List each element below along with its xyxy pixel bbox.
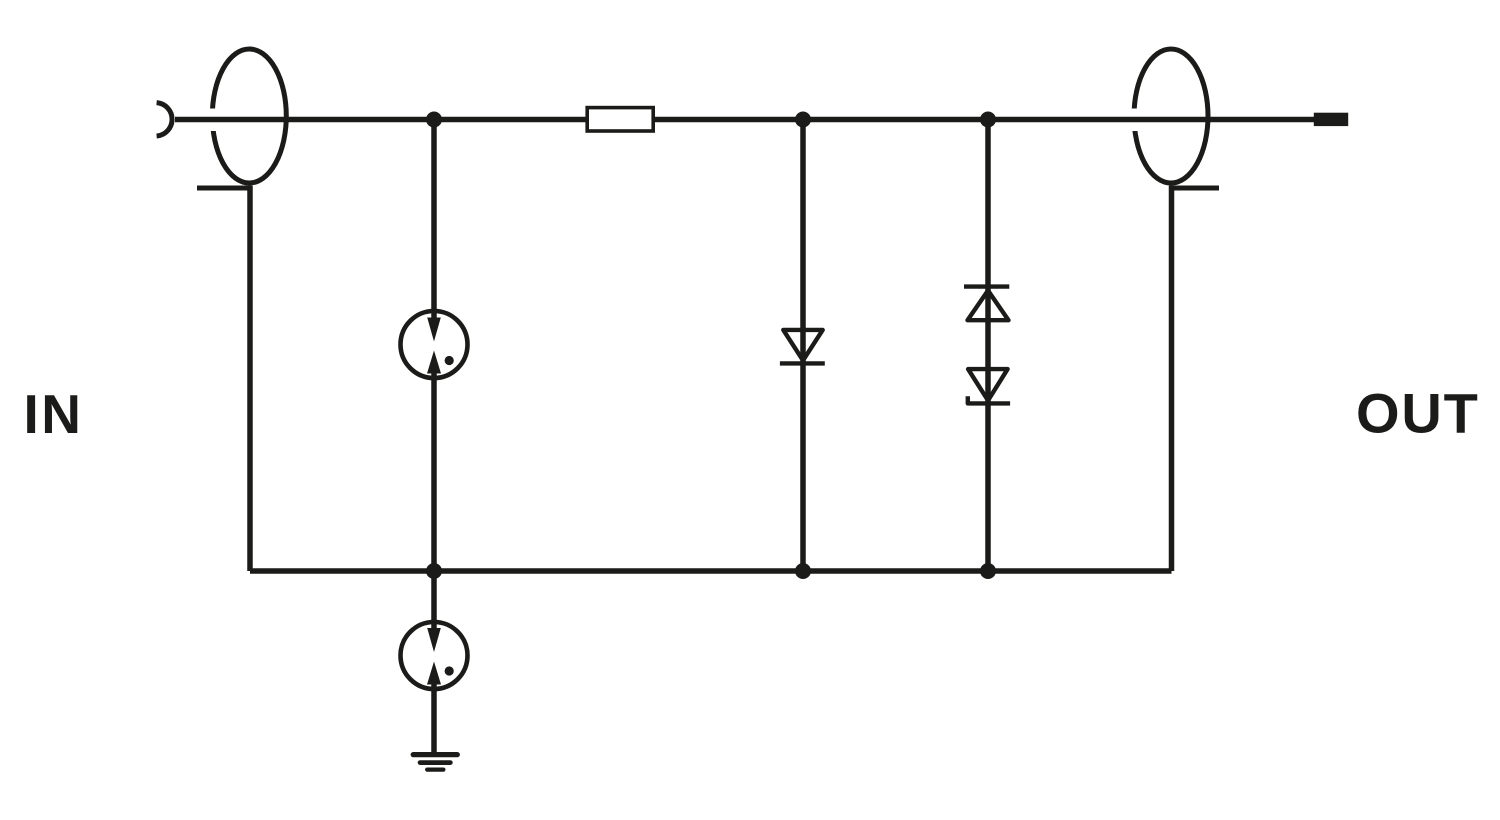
suppressor diode V3 (lower, zener) — [968, 369, 1010, 403]
wire: suppressor diode branch — [985, 120, 991, 572]
wire: from F2 down to ground — [431, 676, 437, 754]
gas discharge tube F2 — [401, 622, 468, 689]
connector J1 mating arc — [157, 103, 172, 136]
node dot top at GDT branch — [426, 112, 442, 128]
connector J2 (OUT) ellipse — [1134, 49, 1208, 183]
node dot top at V1 branch — [795, 112, 811, 128]
gas discharge tube F1 — [401, 311, 468, 378]
connector J1 bottom tab — [197, 186, 252, 191]
node dot bottom at V2 branch — [980, 563, 996, 579]
connector J2 bottom tab — [1171, 186, 1219, 191]
wire: right vertical (J2 shield down to bottom rail) — [1169, 186, 1175, 572]
wire: from bottom rail down to F2 — [431, 571, 437, 637]
resistor R1 — [587, 108, 653, 131]
wire gap in J1 ellipse left edge — [205, 109, 222, 132]
wire: GDT branch upper segment — [431, 120, 437, 327]
wire: diode V1 branch — [800, 120, 806, 572]
suppressor diode V2 (upper) — [964, 287, 1009, 321]
output terminal cap — [1314, 113, 1348, 126]
node dot bottom at GDT branch — [426, 563, 442, 579]
svg-text:IN: IN — [24, 383, 84, 445]
wire: GDT branch lower segment — [431, 365, 437, 571]
connector J1 (IN) ellipse — [212, 49, 286, 183]
wire gap in J2 ellipse left edge — [1127, 109, 1144, 132]
wire: left vertical (J1 shield down to bottom rail) — [247, 186, 253, 572]
ground — [413, 755, 457, 770]
diode V1 — [780, 330, 825, 364]
wire: top rail from J1 to output terminal — [175, 117, 1316, 123]
wire: bottom rail — [250, 568, 1172, 574]
node dot top at V2 branch — [980, 112, 996, 128]
node dot bottom at V1 branch — [795, 563, 811, 579]
svg-text:OUT: OUT — [1356, 382, 1480, 445]
